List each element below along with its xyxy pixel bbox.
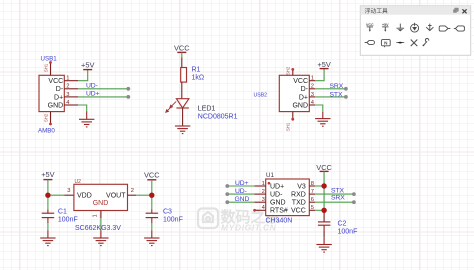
svg-text:UD+: UD+ bbox=[235, 180, 249, 187]
svg-text:8: 8 bbox=[311, 181, 314, 187]
U2 pin3 stub bbox=[64, 188, 74, 195]
wire UD+ (U1 pin1) bbox=[225, 184, 254, 188]
wire STX (U1 pin7) bbox=[315, 192, 356, 196]
svg-text:TXD: TXD bbox=[292, 200, 306, 207]
svg-text:GND: GND bbox=[270, 200, 286, 207]
svg-text:1: 1 bbox=[262, 181, 265, 187]
svg-text:R1: R1 bbox=[192, 67, 201, 74]
connector USB1 body bbox=[39, 75, 64, 111]
junction node OUT bbox=[149, 193, 154, 198]
svg-text:1: 1 bbox=[311, 76, 314, 82]
svg-text:3: 3 bbox=[262, 197, 265, 203]
power flag +5V (USB2) bbox=[317, 60, 330, 69]
wire node OUT to C3 bbox=[151, 195, 153, 209]
wire U2 pin2 to node OUT bbox=[136, 194, 152, 196]
svg-text:UD+: UD+ bbox=[270, 183, 284, 190]
svg-text:100nF: 100nF bbox=[338, 229, 358, 236]
svg-text:2: 2 bbox=[262, 189, 265, 195]
USB2 pin MH2 (bottom) bbox=[286, 112, 295, 131]
connector USB2 body bbox=[279, 75, 309, 111]
capacitor C1 bbox=[42, 210, 55, 224]
U1 pin1 marker bbox=[268, 182, 271, 185]
svg-text:SH1: SH1 bbox=[286, 122, 291, 131]
wire USB1 pin4 to ground bbox=[78, 105, 86, 111]
USB2 pin stubs bbox=[309, 81, 315, 105]
junction node IN bbox=[45, 193, 50, 198]
wire U1 pin5 to rail bbox=[315, 209, 324, 211]
svg-text:VCC: VCC bbox=[366, 23, 374, 27]
R1 labels bbox=[192, 67, 205, 82]
svg-text:VOUT: VOUT bbox=[106, 193, 126, 200]
svg-text:5: 5 bbox=[311, 205, 314, 211]
svg-text:2: 2 bbox=[311, 84, 314, 90]
C2 labels bbox=[338, 221, 358, 236]
svg-text:1kΩ: 1kΩ bbox=[192, 75, 205, 82]
ground (C3) bbox=[144, 230, 159, 245]
ground (USB2) bbox=[315, 112, 330, 126]
U1 left pin stubs bbox=[254, 186, 266, 210]
U1 RTS# unconnected pin dot bbox=[253, 209, 256, 212]
capacitor C2 bbox=[318, 222, 331, 231]
junction V3 rail bbox=[321, 183, 326, 188]
toolbar icon earth ground bbox=[411, 23, 419, 32]
svg-text:2: 2 bbox=[131, 188, 134, 194]
toolbar icon VCC flag bbox=[366, 23, 374, 32]
USB1 pin MH2 (bottom) bbox=[44, 112, 52, 126]
svg-text:C2: C2 bbox=[338, 221, 347, 228]
wire USB1 pin1 to +5V bbox=[78, 70, 87, 81]
svg-text:+5V: +5V bbox=[41, 170, 54, 179]
USB1 pin stubs bbox=[64, 81, 78, 105]
svg-text:6: 6 bbox=[311, 197, 314, 203]
svg-text:D+: D+ bbox=[299, 94, 308, 101]
svg-text:SC662KG3.3V: SC662KG3.3V bbox=[75, 225, 121, 232]
junction VCC rail bbox=[321, 208, 326, 213]
svg-text:1: 1 bbox=[93, 214, 99, 217]
IC U1 body bbox=[266, 179, 310, 216]
toolbar icon net label N bbox=[381, 40, 390, 48]
svg-text:UD-: UD- bbox=[235, 188, 247, 195]
power flag +5V (USB1) bbox=[81, 61, 94, 70]
toolbar icon +5V flag bbox=[382, 23, 389, 32]
toolbar close button bbox=[462, 9, 466, 13]
U2 pin2 stub bbox=[128, 188, 137, 195]
wire +5V down to node bbox=[47, 180, 49, 196]
floating toolbar panel bbox=[360, 6, 470, 56]
wire VCC down to node OUT bbox=[151, 180, 153, 195]
wire U2 GND to ground bbox=[100, 218, 102, 230]
wire UD- (USB1 pin2) bbox=[78, 87, 130, 91]
ground (U2) bbox=[93, 230, 108, 245]
power flag VCC (U1) bbox=[316, 163, 332, 172]
svg-text:+5V: +5V bbox=[81, 61, 94, 70]
wire rail to C2 bbox=[323, 210, 325, 222]
svg-text:100nF: 100nF bbox=[58, 217, 78, 224]
LED LED1 bbox=[176, 99, 189, 108]
svg-text:VCC: VCC bbox=[144, 170, 160, 179]
wire C1 to ground bbox=[47, 223, 49, 230]
svg-text:SRX: SRX bbox=[330, 83, 344, 90]
svg-text:LED1: LED1 bbox=[198, 106, 216, 113]
ground (USB1) bbox=[79, 111, 94, 127]
svg-text:浮动工具: 浮动工具 bbox=[365, 7, 388, 15]
U1 right pin stubs bbox=[309, 186, 315, 210]
U2 pin names bbox=[77, 193, 126, 207]
LED1 labels bbox=[198, 106, 238, 121]
wire USB2 pin1 to +5V bbox=[315, 69, 324, 81]
wire C3 to ground bbox=[151, 223, 153, 230]
svg-text:VCC: VCC bbox=[174, 44, 190, 53]
watermark logo bbox=[198, 209, 218, 229]
resistor R1 bbox=[181, 58, 187, 99]
svg-text:3: 3 bbox=[67, 188, 70, 194]
power flag +5V (regulator input) bbox=[41, 170, 54, 179]
wire USB2 pin4 to ground bbox=[315, 105, 323, 112]
svg-text:GND: GND bbox=[48, 102, 64, 109]
wire node IN to C1 bbox=[47, 195, 49, 209]
svg-text:USB1: USB1 bbox=[41, 56, 58, 63]
svg-text:SH2: SH2 bbox=[44, 113, 49, 122]
svg-text:RTS#: RTS# bbox=[270, 208, 288, 215]
USB1 pin MH1 (top) bbox=[44, 61, 52, 75]
ground (C1) bbox=[40, 230, 55, 245]
power flag VCC (R1 top) bbox=[174, 44, 190, 53]
C1 labels bbox=[58, 209, 78, 224]
USB1 pin names bbox=[48, 78, 64, 109]
svg-text:V3: V3 bbox=[297, 183, 306, 190]
USB2 pin MH1 (top) bbox=[286, 66, 295, 75]
svg-text:SH2: SH2 bbox=[286, 66, 291, 75]
U1 right pin numbers bbox=[311, 181, 314, 211]
wire GND (U1 pin3) bbox=[225, 200, 254, 204]
svg-text:D-: D- bbox=[301, 86, 309, 93]
svg-text:3: 3 bbox=[66, 92, 69, 98]
toolbar icon net port bidir bbox=[454, 26, 465, 31]
svg-text:2: 2 bbox=[66, 84, 69, 90]
USB1 pin numbers bbox=[66, 76, 70, 106]
svg-text:NCD0805R1: NCD0805R1 bbox=[198, 114, 238, 121]
toolbar icon net port right bbox=[439, 26, 450, 31]
wire SRX (USB2 pin2) bbox=[315, 87, 348, 91]
svg-text:UD+: UD+ bbox=[86, 90, 100, 97]
ground (C2) bbox=[316, 237, 331, 252]
toolbar icon ground bbox=[397, 24, 405, 32]
U1 right pin names bbox=[291, 183, 306, 214]
svg-text:C3: C3 bbox=[163, 209, 172, 216]
toolbar icon no-connect X bbox=[411, 40, 418, 47]
watermark text bbox=[221, 208, 281, 233]
svg-text:D-: D- bbox=[56, 86, 64, 93]
svg-text:U1: U1 bbox=[266, 172, 274, 179]
svg-text:AMB0: AMB0 bbox=[38, 127, 55, 134]
svg-text:GND: GND bbox=[292, 102, 308, 109]
toolbar icon probe flag bbox=[396, 42, 404, 44]
USB2 pin names bbox=[292, 78, 308, 109]
svg-text:GND: GND bbox=[93, 200, 109, 207]
capacitor C3 bbox=[146, 210, 159, 224]
svg-text:U2: U2 bbox=[75, 179, 82, 185]
svg-text:STX: STX bbox=[331, 187, 344, 194]
wire LED1 to ground bbox=[182, 108, 184, 126]
svg-text:+5V: +5V bbox=[317, 60, 330, 69]
U1 left pin numbers bbox=[262, 181, 266, 211]
wire STX (USB2 pin3) bbox=[315, 95, 348, 99]
svg-text:STX: STX bbox=[330, 91, 343, 98]
svg-text:UD-: UD- bbox=[270, 192, 283, 199]
C3 labels bbox=[163, 209, 183, 224]
svg-text:VCC: VCC bbox=[293, 78, 308, 85]
svg-text:3: 3 bbox=[311, 92, 314, 98]
toolbar icon chassis ground bbox=[426, 24, 433, 31]
toolbar window button bbox=[453, 8, 458, 13]
svg-text:+5V: +5V bbox=[382, 23, 389, 27]
wire U1 pin8 to rail bbox=[315, 185, 324, 187]
svg-text:D+: D+ bbox=[54, 94, 63, 101]
svg-text:VCC: VCC bbox=[48, 78, 63, 85]
toolbar icon probe hook bbox=[423, 38, 429, 46]
svg-text:1: 1 bbox=[66, 76, 69, 82]
svg-text:7: 7 bbox=[311, 189, 314, 195]
wire UD+ (USB1 pin3) bbox=[78, 95, 130, 99]
wire C2 to ground bbox=[323, 231, 325, 237]
toolbar icon net port left bbox=[365, 41, 375, 45]
svg-text:VDD: VDD bbox=[77, 193, 92, 200]
svg-text:VCC: VCC bbox=[316, 163, 332, 172]
svg-text:SRX: SRX bbox=[331, 194, 345, 201]
svg-text:100nF: 100nF bbox=[163, 217, 183, 224]
svg-text:USB2: USB2 bbox=[254, 93, 268, 99]
svg-text:VCC: VCC bbox=[291, 208, 306, 215]
wire UD- (U1 pin2) bbox=[225, 192, 254, 196]
svg-text:GND: GND bbox=[235, 196, 250, 203]
svg-text:C1: C1 bbox=[58, 209, 67, 216]
svg-text:UD-: UD- bbox=[86, 82, 98, 89]
regulator U2 body bbox=[74, 184, 128, 210]
svg-text:SH1: SH1 bbox=[44, 63, 49, 72]
wire VCC rail (U1) bbox=[323, 171, 325, 210]
svg-text:RXD: RXD bbox=[291, 192, 306, 199]
power flag VCC (regulator output) bbox=[144, 170, 160, 179]
ground (LED1) bbox=[175, 126, 190, 134]
wire VCC to R1 bbox=[181, 52, 183, 57]
U1 left pin names bbox=[270, 183, 288, 214]
USB2 pin numbers bbox=[311, 76, 315, 106]
U2 GND pin stub bbox=[93, 211, 101, 219]
LED1 emission arrows bbox=[166, 101, 176, 112]
svg-text:CH340N: CH340N bbox=[266, 218, 293, 225]
wire SRX (U1 pin6) bbox=[315, 200, 356, 204]
wire node to U2 pin3 bbox=[48, 194, 64, 196]
